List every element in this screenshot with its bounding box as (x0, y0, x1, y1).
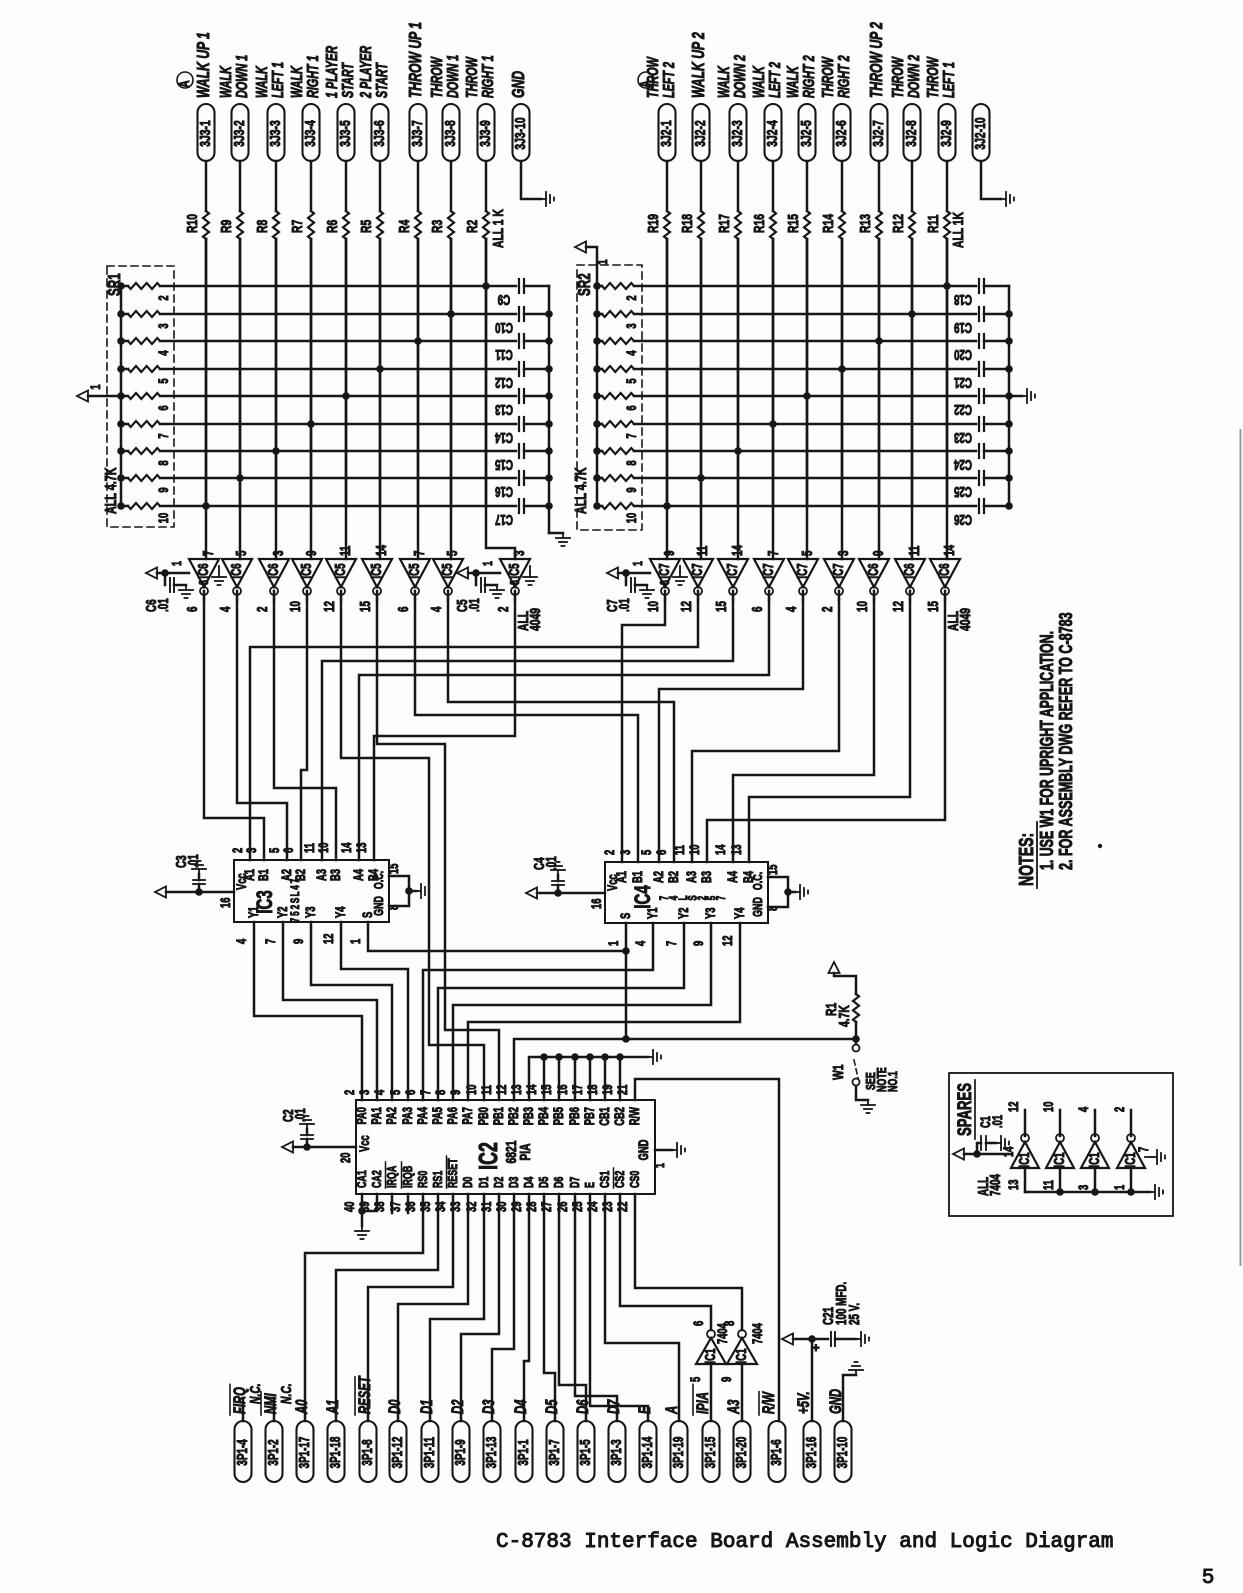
wire (414, 591, 417, 600)
inverter IC7 (pin 7 to 6) (754, 559, 784, 587)
svg-text:LEFT 2: LEFT 2 (660, 62, 678, 98)
junction (307, 420, 315, 428)
SR2 bus ground (1009, 395, 1022, 398)
inverter IC5 (pin 5 to 4) (433, 559, 463, 587)
svg-text:C16: C16 (495, 483, 513, 499)
svg-text:6: 6 (155, 405, 171, 411)
capacitor C14 (518, 417, 520, 431)
svg-text:19: 19 (599, 1084, 615, 1095)
SR1 common bus (120, 286, 123, 506)
connector pin 3P1-10 (GND) (835, 1421, 852, 1482)
ground (1001, 198, 1006, 200)
svg-text:DOWN 2: DOWN 2 (731, 54, 749, 98)
svg-text:B2: B2 (292, 869, 308, 881)
svg-text:CS0: CS0 (628, 1171, 642, 1188)
power +5V for IC7 (607, 568, 618, 579)
svg-text:37: 37 (387, 1201, 403, 1212)
inverter IC6 (pin 7 to 6) (189, 559, 219, 587)
svg-text:THROW: THROW (819, 56, 837, 98)
svg-text:A2: A2 (650, 871, 666, 883)
svg-text:3P1-5: 3P1-5 (577, 1439, 593, 1465)
svg-text:4: 4 (783, 606, 799, 612)
wire (768, 591, 771, 600)
svg-text:RIGHT 1: RIGHT 1 (304, 55, 322, 98)
SR2 pin 1 +5V (586, 247, 597, 286)
svg-text:C18: C18 (954, 291, 972, 307)
junction (376, 365, 384, 373)
svg-text:3J3-3: 3J3-3 (266, 120, 284, 146)
svg-text:IC5: IC5 (368, 563, 384, 578)
svg-text:2: 2 (341, 1089, 357, 1095)
wire CS2 to IPIA inverter (620, 1194, 711, 1330)
svg-text:Y2: Y2 (675, 907, 691, 919)
svg-text:3J3-7: 3J3-7 (408, 120, 426, 146)
wire (873, 591, 876, 600)
wire to ground (981, 161, 1001, 199)
svg-text:Vcc: Vcc (604, 874, 620, 891)
svg-text:35: 35 (417, 1201, 433, 1212)
svg-text:33: 33 (447, 1201, 463, 1212)
resistor SR2-8 (593, 447, 601, 455)
connector pin 3J2-9 (939, 104, 956, 161)
ground (562, 533, 564, 538)
wire (438, 923, 684, 1100)
wire IRQA stub N.C. (391, 1194, 394, 1213)
svg-text:SPARES: SPARES (955, 1083, 976, 1136)
svg-text:IC5: IC5 (506, 563, 522, 578)
wire (911, 161, 914, 211)
resistor R2 (483, 211, 489, 239)
svg-text:34: 34 (432, 1201, 448, 1212)
spare inverter IC1 (pins 1-2) (1117, 1142, 1145, 1168)
inverter IC7 (pin 3 to 2) (824, 559, 854, 587)
svg-text:LEFT 2: LEFT 2 (766, 62, 784, 98)
svg-text:1: 1 (170, 561, 184, 566)
svg-text:A0: A0 (293, 1399, 312, 1414)
wire stub (619, 1057, 622, 1100)
svg-text:25 V.: 25 V. (846, 1303, 862, 1325)
wire (692, 600, 839, 862)
svg-text:7: 7 (623, 433, 639, 439)
svg-text:.01: .01 (989, 1115, 1005, 1128)
svg-text:7: 7 (290, 917, 303, 922)
svg-text:3J2-9: 3J2-9 (937, 120, 955, 146)
svg-text:R15: R15 (784, 214, 802, 233)
svg-text:Y2: Y2 (274, 906, 290, 918)
svg-text:2. FOR ASSEMBLY DWG REFER TO C: 2. FOR ASSEMBLY DWG REFER TO C-8783 (1057, 612, 1077, 870)
svg-text:2: 2 (819, 606, 835, 612)
A-circle marker left (177, 72, 193, 88)
connector pin 3J2-4 (765, 104, 782, 161)
svg-text:6: 6 (623, 405, 639, 411)
svg-text:Y1: Y1 (644, 907, 660, 919)
wire (379, 239, 382, 506)
svg-text:IRQA: IRQA (385, 1166, 399, 1188)
svg-text:R2: R2 (463, 220, 481, 233)
wire (749, 600, 910, 862)
svg-text:12: 12 (1005, 1101, 1021, 1112)
svg-text:15: 15 (713, 601, 729, 612)
svg-text:8: 8 (508, 580, 522, 585)
connector pin 3J2-10 (973, 104, 990, 161)
svg-text:DOWN 2: DOWN 2 (905, 54, 923, 98)
resistor R16 (770, 211, 776, 239)
wire column (700, 239, 703, 559)
svg-text:.01: .01 (466, 598, 482, 612)
wire (590, 1194, 648, 1421)
wire (447, 591, 450, 600)
svg-text:8: 8 (432, 1089, 448, 1095)
connector pin 3P1-11 (D1) (422, 1421, 439, 1482)
resistor R1 4.7K (853, 994, 859, 1022)
junction (734, 447, 742, 455)
svg-text:4: 4 (217, 606, 233, 612)
svg-text:11: 11 (906, 546, 922, 556)
svg-text:3J3-10: 3J3-10 (511, 117, 529, 149)
resistor R3 (448, 211, 454, 239)
svg-text:IC6: IC6 (228, 563, 244, 578)
wire (239, 161, 242, 211)
connector pin 3P1-1 (D4) (516, 1421, 533, 1482)
svg-text:1: 1 (594, 259, 610, 265)
stray mark (1098, 844, 1102, 848)
inverter IC7 (pin 14 to 15) (718, 559, 748, 587)
svg-text:2: 2 (254, 606, 270, 612)
resistor SR2-4 (593, 337, 601, 345)
svg-text:29: 29 (508, 1201, 524, 1212)
wire (453, 923, 711, 1100)
wire stub (558, 1057, 561, 1100)
wire CS0 to A3 inverter (635, 1194, 742, 1330)
wire (622, 600, 665, 862)
wire (856, 1086, 868, 1100)
svg-text:IC6: IC6 (265, 563, 281, 578)
svg-text:NOTES:: NOTES: (1014, 833, 1037, 886)
svg-text:D3: D3 (480, 1399, 499, 1414)
svg-text:25: 25 (569, 1201, 585, 1212)
svg-text:3J3-1: 3J3-1 (196, 120, 214, 146)
svg-text:3J3-8: 3J3-8 (441, 120, 459, 146)
wire column (806, 239, 809, 559)
wire stub (589, 1057, 592, 1100)
svg-text:3J3-9: 3J3-9 (476, 120, 494, 146)
svg-text:C9: C9 (498, 291, 511, 307)
svg-text:Y3: Y3 (302, 906, 318, 918)
svg-text:IC7: IC7 (794, 563, 810, 578)
wire column (275, 239, 278, 559)
resistor R8 (273, 211, 279, 239)
svg-text:6: 6 (653, 849, 669, 855)
svg-text:4: 4 (632, 940, 648, 946)
multiplexer IC4 74LS257 body (605, 862, 768, 923)
svg-text:RIGHT 1: RIGHT 1 (479, 55, 497, 98)
svg-text:11: 11 (694, 546, 710, 556)
svg-text:15: 15 (764, 864, 780, 875)
connector pin 3P1-12 (D0) (390, 1421, 407, 1482)
svg-text:1. USE W1 FOR UPRIGHT APPLICAT: 1. USE W1 FOR UPRIGHT APPLICATION. (1038, 631, 1058, 870)
wire column (486, 239, 515, 559)
wire (841, 161, 844, 211)
svg-text:9: 9 (661, 550, 677, 556)
svg-text:D4: D4 (522, 1176, 536, 1188)
junction (272, 447, 280, 455)
svg-text:2: 2 (1111, 1106, 1127, 1112)
svg-text:10: 10 (315, 842, 331, 853)
svg-text:N.C.: N.C. (277, 1383, 295, 1404)
SR1 pin 1 +5V (88, 395, 121, 398)
resistor R4 (415, 211, 421, 239)
wire (417, 161, 420, 211)
connector pin 3J3-2 (232, 104, 249, 161)
svg-text:12: 12 (719, 935, 735, 946)
inverter IC5 (pin 9 to 10) (292, 559, 322, 587)
scan edge artifact (1240, 430, 1242, 1265)
connector pin 3P1-7 (D5) (547, 1421, 564, 1482)
svg-text:A: A (175, 80, 193, 88)
connector pin 3J3-9 (478, 104, 495, 161)
wire (237, 600, 287, 860)
capacitor C10 (518, 307, 520, 321)
svg-text:12: 12 (890, 601, 906, 612)
svg-text:16: 16 (217, 897, 233, 908)
resistor SR1-5 (117, 365, 125, 373)
junction (875, 337, 883, 345)
svg-text:24: 24 (584, 1201, 600, 1212)
svg-text:C23: C23 (954, 429, 972, 445)
wire to ground (521, 161, 541, 199)
svg-text:3J3-5: 3J3-5 (336, 120, 354, 146)
wire (423, 923, 653, 1100)
svg-text:14: 14 (338, 842, 354, 853)
wire (415, 600, 638, 862)
svg-text:15: 15 (538, 1084, 554, 1095)
wire PB2 to R1/W1 select (514, 1039, 856, 1100)
svg-text:CS1: CS1 (598, 1171, 612, 1188)
power +5V for R1 (829, 962, 840, 973)
A-circle marker right (638, 72, 654, 88)
wire (205, 161, 208, 211)
svg-text:16: 16 (554, 1084, 570, 1095)
svg-text:9: 9 (303, 550, 319, 556)
svg-text:4: 4 (233, 938, 249, 944)
svg-text:D0: D0 (386, 1399, 405, 1414)
svg-text:D0: D0 (461, 1177, 475, 1188)
spare inverter IC1 (pins 3-4) (1081, 1142, 1109, 1168)
svg-text:B1: B1 (629, 871, 645, 883)
svg-text:CB2: CB2 (611, 1107, 627, 1126)
svg-text:PA6: PA6 (444, 1107, 460, 1125)
wire (524, 1194, 529, 1421)
svg-text:3J2-8: 3J2-8 (902, 120, 920, 146)
wire (909, 591, 912, 600)
wire (492, 1194, 514, 1421)
svg-text:R/W: R/W (760, 1391, 779, 1414)
svg-text:4: 4 (428, 606, 444, 612)
svg-text:LEFT 1: LEFT 1 (940, 62, 958, 98)
svg-text:S: S (290, 898, 303, 904)
connector pin 3J3-1 (198, 104, 215, 161)
svg-text:11: 11 (478, 1085, 494, 1095)
svg-text:D6: D6 (574, 1399, 593, 1414)
svg-text:PB4: PB4 (535, 1107, 551, 1126)
wire (273, 591, 276, 600)
svg-text:R18: R18 (678, 214, 696, 233)
svg-text:3J3-4: 3J3-4 (301, 120, 319, 147)
connector pin 3P1-9 (D2) (453, 1421, 470, 1482)
wire IRQB stub N.C. (407, 1194, 410, 1213)
svg-text:1: 1 (1111, 1184, 1127, 1190)
power +5V for spares IC1 pin 14 (953, 1149, 964, 1160)
svg-text:12: 12 (320, 933, 336, 944)
wire (878, 161, 881, 211)
svg-text:12: 12 (321, 601, 337, 612)
SR1 capacitor bus (548, 286, 551, 533)
svg-text:13: 13 (1005, 1179, 1021, 1190)
svg-text:B1: B1 (255, 869, 271, 881)
resistor SR2-5 (593, 365, 601, 373)
jumper W1 (853, 1045, 860, 1052)
svg-text:THROW: THROW (889, 56, 907, 98)
inverter IC5 (pin 7 to 6) (400, 559, 430, 587)
capacitor C16 (518, 471, 520, 485)
svg-text:8: 8 (721, 1320, 737, 1326)
wire column (878, 239, 881, 559)
svg-text:PA1: PA1 (368, 1107, 384, 1125)
junction (447, 310, 455, 318)
wire stub (543, 1057, 546, 1100)
svg-text:5: 5 (638, 849, 654, 855)
svg-text:D7: D7 (568, 1177, 582, 1188)
wire (345, 161, 348, 211)
svg-text:C13: C13 (495, 401, 513, 417)
inverter IC6 (pin 11 to 12) (895, 559, 925, 587)
wire (336, 1194, 438, 1421)
svg-text:7: 7 (663, 940, 679, 946)
wire (855, 1022, 858, 1044)
resistor R19 (664, 211, 670, 239)
svg-text:RIGHT 2: RIGHT 2 (800, 55, 818, 98)
svg-text:5: 5 (290, 911, 303, 916)
capacitor C5 .01 (475, 573, 478, 585)
svg-text:C12: C12 (495, 374, 513, 390)
svg-text:3: 3 (155, 323, 171, 329)
svg-text:R14: R14 (819, 213, 837, 233)
connector pin 3J3-8 (443, 104, 460, 161)
svg-text:PB2: PB2 (505, 1107, 521, 1126)
wire (468, 923, 740, 1100)
svg-text:THROW: THROW (924, 56, 942, 98)
svg-text:.01: .01 (185, 854, 201, 868)
wire (485, 239, 488, 506)
svg-text:3J2-4: 3J2-4 (763, 120, 781, 147)
svg-text:GND: GND (509, 71, 529, 98)
svg-text:PA0: PA0 (353, 1107, 369, 1125)
svg-text:PB6: PB6 (566, 1107, 582, 1126)
resistor R15 (804, 211, 810, 239)
svg-text:C20: C20 (954, 346, 972, 362)
svg-text:40: 40 (341, 1201, 357, 1212)
svg-text:3P1-12: 3P1-12 (389, 1437, 405, 1469)
wire column (841, 239, 844, 559)
svg-text:1: 1 (653, 1163, 667, 1168)
svg-text:THROW: THROW (428, 56, 446, 98)
svg-text:RESET: RESET (446, 1158, 460, 1188)
svg-text:THROW UP 1: THROW UP 1 (406, 22, 426, 98)
svg-text:22: 22 (614, 1201, 630, 1212)
svg-text:IC1: IC1 (702, 1348, 718, 1363)
capacitor C22 (978, 389, 980, 403)
svg-text:R/W: R/W (626, 1106, 642, 1125)
svg-text:WALK: WALK (750, 65, 768, 98)
svg-text:7: 7 (262, 938, 278, 944)
wire column (772, 239, 775, 559)
svg-text:3J2-3: 3J2-3 (728, 120, 746, 146)
svg-text:9: 9 (447, 1089, 463, 1095)
wire (359, 600, 769, 860)
wire (340, 591, 343, 600)
junction (697, 474, 705, 482)
svg-text:D2: D2 (492, 1177, 506, 1188)
svg-text:13: 13 (728, 844, 744, 855)
wire (450, 161, 453, 211)
svg-text:4: 4 (623, 350, 639, 356)
connector pin 3P1-15 (IPIA) (703, 1421, 720, 1482)
inverter IC5 (pin 3 to 2) (500, 559, 530, 587)
svg-text:4: 4 (1075, 1106, 1091, 1112)
wire (707, 600, 945, 862)
resistor SR2-7 (593, 420, 601, 428)
svg-text:THROW: THROW (463, 56, 481, 98)
wire (659, 600, 803, 862)
wire column (239, 239, 242, 559)
inverter IC7 (pin 5 to 4) (788, 559, 818, 587)
wire column (205, 239, 208, 559)
wire (310, 161, 313, 211)
svg-text:1: 1 (87, 384, 103, 390)
svg-text:2: 2 (155, 295, 171, 301)
svg-text:6: 6 (749, 606, 765, 612)
svg-text:A3: A3 (725, 1399, 744, 1414)
svg-text:11: 11 (337, 546, 353, 556)
connector pin 3P1-4 (FIRQ) (235, 1421, 252, 1482)
svg-text:CA2: CA2 (370, 1170, 384, 1188)
svg-text:DOWN 1: DOWN 1 (444, 55, 462, 98)
power +5V at 3P1-16 with capacitor C21 (811, 1339, 814, 1421)
resistor R5 (377, 211, 383, 239)
svg-text:A: A (663, 1406, 682, 1415)
wire column (666, 239, 669, 559)
svg-text:18: 18 (584, 1084, 600, 1095)
svg-text:D7: D7 (605, 1399, 624, 1414)
wire (841, 239, 844, 506)
svg-text:.01: .01 (292, 1108, 308, 1122)
svg-text:RS1: RS1 (431, 1171, 445, 1188)
power +5V for IC5 (457, 568, 468, 579)
svg-text:B3: B3 (698, 871, 714, 883)
svg-text:WALK: WALK (217, 65, 235, 98)
svg-text:IRQB: IRQB (401, 1166, 415, 1188)
resistor SR1-9 (117, 474, 125, 482)
svg-text:3P1-13: 3P1-13 (483, 1437, 499, 1469)
svg-text:6: 6 (395, 606, 411, 612)
svg-text:3P1-15: 3P1-15 (702, 1437, 718, 1469)
svg-text:1 PLAYER: 1 PLAYER (323, 46, 341, 98)
wire GND at 3P1-10 (843, 1375, 856, 1421)
svg-text:14: 14 (729, 545, 745, 556)
SR2 capacitor bus (1008, 286, 1011, 506)
svg-text:IC6: IC6 (195, 563, 211, 578)
power +5V for IC6 (146, 568, 157, 579)
